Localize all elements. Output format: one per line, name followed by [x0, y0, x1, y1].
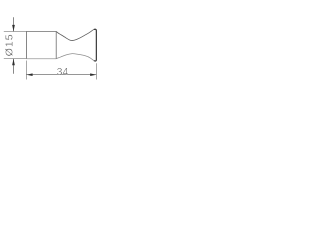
knob left edge	[25, 31, 27, 58]
cylinder end edge	[55, 31, 57, 58]
svg-text:34: 34	[57, 67, 69, 78]
dimension 34: extension lines	[25, 61, 27, 80]
dimension 34: dim line + arrows	[26, 74, 96, 76]
dome end face edge	[94, 29, 96, 61]
top neck + cap curve	[56, 29, 96, 40]
svg-text:Ø15: Ø15	[4, 33, 16, 56]
bottom neck + cap curve	[56, 54, 96, 61]
knob bottom edge (cylinder)	[26, 58, 56, 60]
dimension Ø15: extension lines	[4, 30, 27, 32]
dimension Ø15: dim line + arrows	[13, 17, 15, 31]
knob top edge (cylinder)	[26, 30, 56, 32]
